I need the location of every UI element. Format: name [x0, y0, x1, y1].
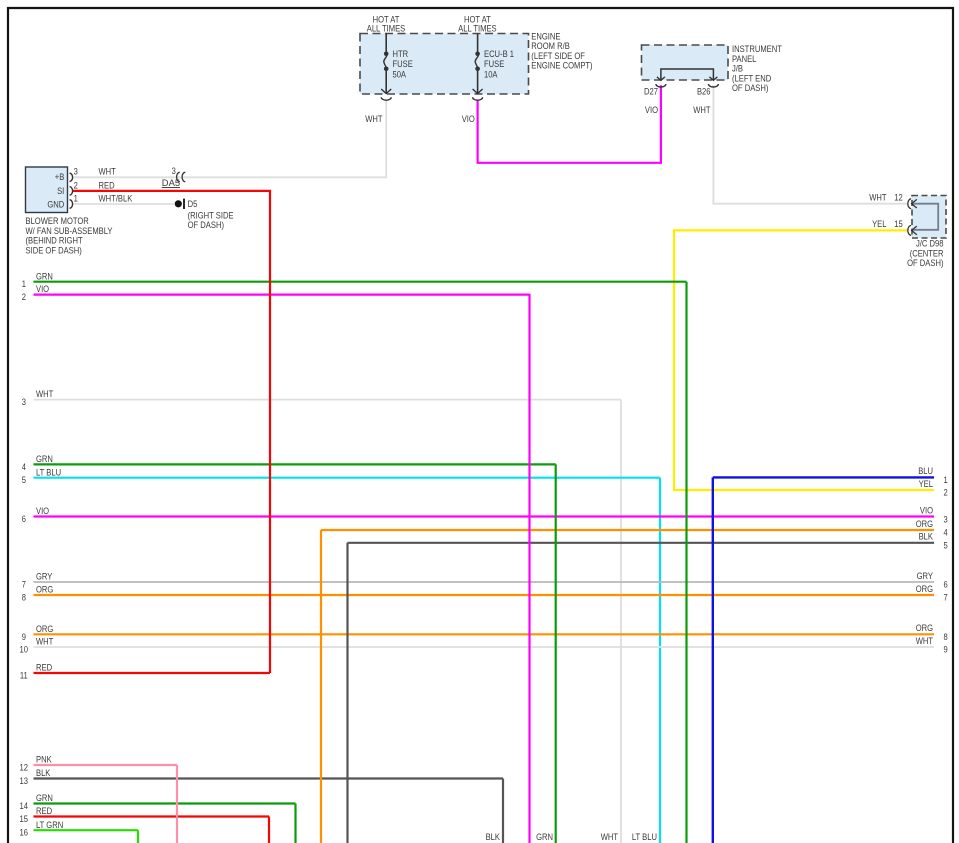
svg-text:2: 2	[22, 291, 26, 302]
svg-text:SIDE OF DASH): SIDE OF DASH)	[26, 244, 82, 255]
J/C D98 internal bus	[913, 204, 939, 230]
svg-text:6: 6	[22, 513, 26, 524]
junction connector J/C D98 box	[912, 196, 946, 239]
svg-text:GRN: GRN	[36, 270, 53, 281]
svg-text:7: 7	[944, 592, 948, 603]
svg-text:D5: D5	[188, 198, 198, 209]
svg-text:OF DASH): OF DASH)	[188, 219, 224, 230]
wire GRN row 14 vertical drop	[294, 804, 296, 843]
wire ORG row 8 horizontal	[34, 594, 935, 596]
wire BLU pin 1 horizontal	[713, 476, 934, 478]
svg-text:3: 3	[172, 165, 176, 176]
wire BLK row 13 vertical drop	[502, 779, 504, 843]
wire RED row 11 horizontal	[34, 672, 271, 674]
blower pin 2 bracket	[70, 187, 73, 196]
wire LT BLU row 5 vertical drop	[659, 478, 661, 843]
wire ORG pin 4 horizontal	[321, 529, 934, 531]
svg-text:OF DASH): OF DASH)	[732, 82, 768, 93]
svg-text:GND: GND	[47, 198, 64, 209]
svg-text:16: 16	[20, 827, 29, 838]
wire GRN row 14 horizontal	[34, 802, 296, 804]
svg-text:VIO: VIO	[920, 505, 933, 516]
wire RED row 15 vertical drop	[268, 817, 270, 843]
svg-text:7: 7	[22, 579, 26, 590]
wire BLK pin 5 vertical drop	[346, 543, 348, 843]
svg-text:WHT: WHT	[99, 166, 117, 177]
wire WHT row 10 horizontal	[34, 646, 935, 648]
wire BLK pin 5 horizontal	[348, 542, 935, 544]
wire WHT/BLK from blower GND to D5	[73, 203, 174, 205]
svg-text:LT BLU: LT BLU	[632, 831, 657, 842]
svg-text:ORG: ORG	[916, 518, 933, 529]
blower pin 1 bracket	[70, 200, 73, 209]
svg-text:WHT: WHT	[916, 635, 934, 646]
svg-text:9: 9	[944, 644, 948, 655]
svg-text:ENGINE COMPT): ENGINE COMPT)	[531, 60, 592, 71]
svg-text:LT BLU: LT BLU	[36, 466, 61, 477]
svg-text:5: 5	[944, 539, 948, 550]
svg-text:YEL: YEL	[872, 218, 886, 229]
wire WHT row 3 vertical drop	[620, 400, 622, 843]
svg-text:RED: RED	[36, 662, 52, 673]
wire WHT row 3 horizontal	[34, 399, 622, 401]
wire GRN row 4 vertical drop	[555, 464, 557, 843]
svg-text:RED: RED	[36, 805, 52, 816]
wire LT GRN row 16 horizontal	[34, 829, 139, 831]
ground point D5	[175, 200, 182, 207]
svg-text:VIO: VIO	[36, 505, 49, 516]
wire VIO from ECU-B 1 fuse to D27	[478, 85, 661, 163]
svg-text:1: 1	[74, 192, 78, 203]
svg-text:9: 9	[22, 631, 26, 642]
svg-text:YEL: YEL	[919, 478, 933, 489]
wire ORG row 9 horizontal	[34, 633, 935, 635]
wire YEL from J/C D98 pin 15	[674, 230, 934, 490]
fuse HTR 50A	[385, 34, 387, 54]
svg-text:GRY: GRY	[917, 570, 934, 581]
connector DA5 arcs	[177, 172, 180, 181]
svg-text:1: 1	[944, 474, 948, 485]
svg-text:WHT/BLK: WHT/BLK	[99, 192, 133, 203]
svg-text:ORG: ORG	[36, 584, 53, 595]
svg-text:DA5: DA5	[162, 177, 180, 188]
svg-text:VIO: VIO	[645, 104, 658, 115]
wire ORG pin 4 vertical drop	[320, 530, 322, 843]
svg-text:ALL TIMES: ALL TIMES	[367, 23, 406, 34]
wire GRN row 4 horizontal	[34, 463, 556, 465]
svg-text:3: 3	[22, 396, 26, 407]
svg-text:ORG: ORG	[36, 623, 53, 634]
svg-text:5: 5	[22, 474, 26, 485]
svg-text:12: 12	[894, 192, 903, 203]
svg-text:12: 12	[20, 762, 29, 773]
svg-text:ALL TIMES: ALL TIMES	[458, 23, 497, 34]
wire LT BLU row 5 horizontal	[34, 477, 661, 479]
svg-text:6: 6	[944, 579, 948, 590]
wire RED from blower SI	[73, 191, 271, 673]
svg-text:VIO: VIO	[462, 113, 475, 124]
wire RED row 15 horizontal	[34, 815, 270, 817]
blower motor box	[26, 167, 68, 213]
wire VIO row 6 horizontal	[34, 515, 935, 517]
wire VIO row 2 horizontal	[34, 294, 530, 296]
svg-text:PNK: PNK	[36, 754, 52, 765]
connector cup D27	[656, 84, 666, 87]
svg-text:15: 15	[894, 218, 903, 229]
svg-text:11: 11	[20, 670, 28, 681]
wire GRN row 1 horizontal	[34, 281, 687, 283]
svg-text:BLU: BLU	[918, 465, 933, 476]
svg-text:BLK: BLK	[486, 831, 501, 842]
engine room R/B box	[360, 34, 529, 95]
wire BLU pin 1 vertical drop	[712, 477, 714, 843]
svg-text:2: 2	[944, 487, 948, 498]
wire BLK row 13 horizontal	[34, 777, 504, 779]
svg-text:8: 8	[944, 631, 948, 642]
svg-text:BLK: BLK	[36, 767, 51, 778]
svg-text:RED: RED	[99, 179, 115, 190]
svg-text:4: 4	[944, 527, 948, 538]
svg-text:GRN: GRN	[536, 831, 553, 842]
wire LT GRN row 16 vertical drop	[137, 830, 139, 843]
svg-text:GRN: GRN	[36, 453, 53, 464]
svg-text:50A: 50A	[393, 68, 407, 79]
connector cup B26	[708, 84, 718, 87]
svg-text:WHT: WHT	[365, 113, 383, 124]
svg-text:15: 15	[20, 813, 29, 824]
svg-text:10A: 10A	[484, 68, 498, 79]
wire WHT from B26 to J/C D98 pin 12	[713, 85, 908, 204]
connector cup below HTR fuse	[381, 97, 391, 100]
svg-text:14: 14	[20, 800, 29, 811]
svg-text:4: 4	[22, 461, 26, 472]
svg-text:GRY: GRY	[36, 571, 53, 582]
svg-text:OF DASH): OF DASH)	[907, 257, 943, 268]
svg-text:WHT: WHT	[601, 831, 619, 842]
wire WHT vertical from HTR fuse	[385, 100, 387, 178]
svg-text:GRN: GRN	[36, 792, 53, 803]
wire WHT from blower +B to HTR fuse	[73, 176, 387, 178]
svg-text:ORG: ORG	[916, 583, 933, 594]
wire PNK row 12 vertical drop	[176, 765, 178, 843]
svg-text:WHT: WHT	[36, 636, 54, 647]
connector cup below ECU-B fuse	[473, 97, 483, 100]
svg-text:2: 2	[74, 179, 78, 190]
instrument panel J/B box	[642, 45, 729, 80]
svg-text:ORG: ORG	[916, 622, 933, 633]
J/C D98 pin 12 terminal	[908, 199, 911, 209]
svg-text:WHT: WHT	[36, 388, 54, 399]
svg-text:13: 13	[20, 775, 29, 786]
svg-text:SI: SI	[57, 185, 64, 196]
J/C D98 pin 15 terminal	[908, 226, 911, 236]
blower pin 3 bracket	[70, 173, 73, 182]
instrument panel J/B internal link D27-B26	[661, 69, 714, 80]
svg-text:D27: D27	[644, 85, 658, 96]
svg-text:WHT: WHT	[869, 192, 887, 203]
svg-text:10: 10	[20, 644, 29, 655]
fuse ECU-B 1 10A	[477, 34, 479, 54]
svg-text:WHT: WHT	[693, 104, 711, 115]
svg-text:8: 8	[22, 592, 26, 603]
svg-text:BLK: BLK	[919, 531, 934, 542]
svg-text:3: 3	[944, 514, 948, 525]
svg-text:LT GRN: LT GRN	[36, 819, 63, 830]
svg-text:B26: B26	[697, 85, 711, 96]
svg-text:3: 3	[74, 166, 78, 177]
wire PNK row 12 horizontal	[34, 764, 178, 766]
svg-text:VIO: VIO	[36, 283, 49, 294]
wire GRY row 7 horizontal	[34, 581, 935, 583]
svg-text:1: 1	[22, 278, 26, 289]
wire GRN row 1 vertical drop	[685, 282, 687, 843]
svg-text:+B: +B	[55, 171, 65, 182]
wire VIO row 2 vertical drop	[528, 294, 530, 843]
